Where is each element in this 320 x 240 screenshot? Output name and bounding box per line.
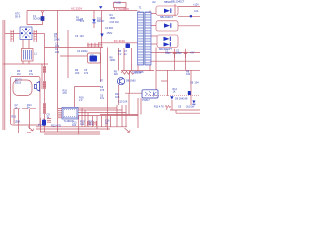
svg-text:DC 310V: DC 310V (114, 39, 125, 43)
svg-text:2200: 2200 (176, 52, 182, 55)
svg-text:C15 104: C15 104 (118, 100, 128, 103)
svg-text:22K: 22K (114, 73, 119, 76)
svg-text:12A: 12A (194, 10, 199, 13)
svg-text:1M: 1M (17, 73, 20, 76)
svg-text:SBL2040CT: SBL2040CT (171, 0, 185, 3)
svg-text:C18 102: C18 102 (110, 21, 120, 24)
svg-text:C2 683: C2 683 (105, 27, 114, 30)
svg-text:472: 472 (80, 20, 85, 23)
svg-text:2k2/1W: 2k2/1W (186, 106, 195, 109)
svg-text:+5V: +5V (190, 51, 195, 54)
svg-text:3300: 3300 (165, 52, 171, 55)
svg-text:330K: 330K (54, 38, 60, 41)
svg-text:473: 473 (100, 89, 105, 92)
svg-text:SBL2040CT: SBL2040CT (160, 16, 174, 19)
svg-text:472: 472 (84, 72, 89, 75)
svg-text:22K: 22K (75, 72, 80, 75)
svg-text:222: 222 (55, 51, 60, 54)
svg-text:250V: 250V (107, 32, 113, 35)
svg-text:FUSE: FUSE (115, 2, 122, 5)
svg-text:D9 1N4148: D9 1N4148 (175, 97, 188, 100)
svg-text:R17: R17 (38, 124, 43, 127)
svg-text:R10 4.7K: R10 4.7K (154, 106, 165, 109)
svg-text:SCK054: SCK054 (33, 18, 43, 21)
svg-text:104: 104 (195, 81, 200, 84)
svg-text:T 5A/250V: T 5A/250V (116, 7, 129, 11)
svg-text:103: 103 (80, 35, 85, 38)
svg-text:C12: C12 (89, 123, 94, 126)
svg-text:C4 1000p: C4 1000p (77, 50, 88, 53)
svg-text:100: 100 (186, 73, 191, 76)
svg-text:Q3 C945: Q3 C945 (134, 71, 144, 74)
svg-text:FR107: FR107 (97, 20, 105, 23)
svg-text:10K: 10K (115, 96, 120, 99)
svg-text:AC 220V: AC 220V (71, 7, 82, 11)
svg-text:EE19: EE19 (15, 81, 22, 84)
svg-text:R15: R15 (12, 115, 17, 118)
svg-text:1K: 1K (173, 91, 176, 94)
svg-text:102: 102 (72, 124, 77, 127)
svg-text:47n: 47n (29, 73, 34, 76)
svg-text:150K: 150K (15, 120, 21, 123)
svg-text:150K: 150K (110, 17, 116, 20)
svg-text:+12V: +12V (193, 4, 199, 7)
svg-text:47u: 47u (100, 97, 105, 100)
svg-text:R13 4.7K: R13 4.7K (51, 124, 62, 127)
svg-text:5D-9: 5D-9 (15, 16, 21, 19)
svg-text:47K: 47K (63, 92, 68, 95)
svg-text:D8 1N60: D8 1N60 (126, 79, 136, 82)
svg-text:PC817: PC817 (142, 99, 150, 102)
svg-text:100K: 100K (110, 59, 116, 62)
svg-text:C11: C11 (80, 123, 85, 126)
